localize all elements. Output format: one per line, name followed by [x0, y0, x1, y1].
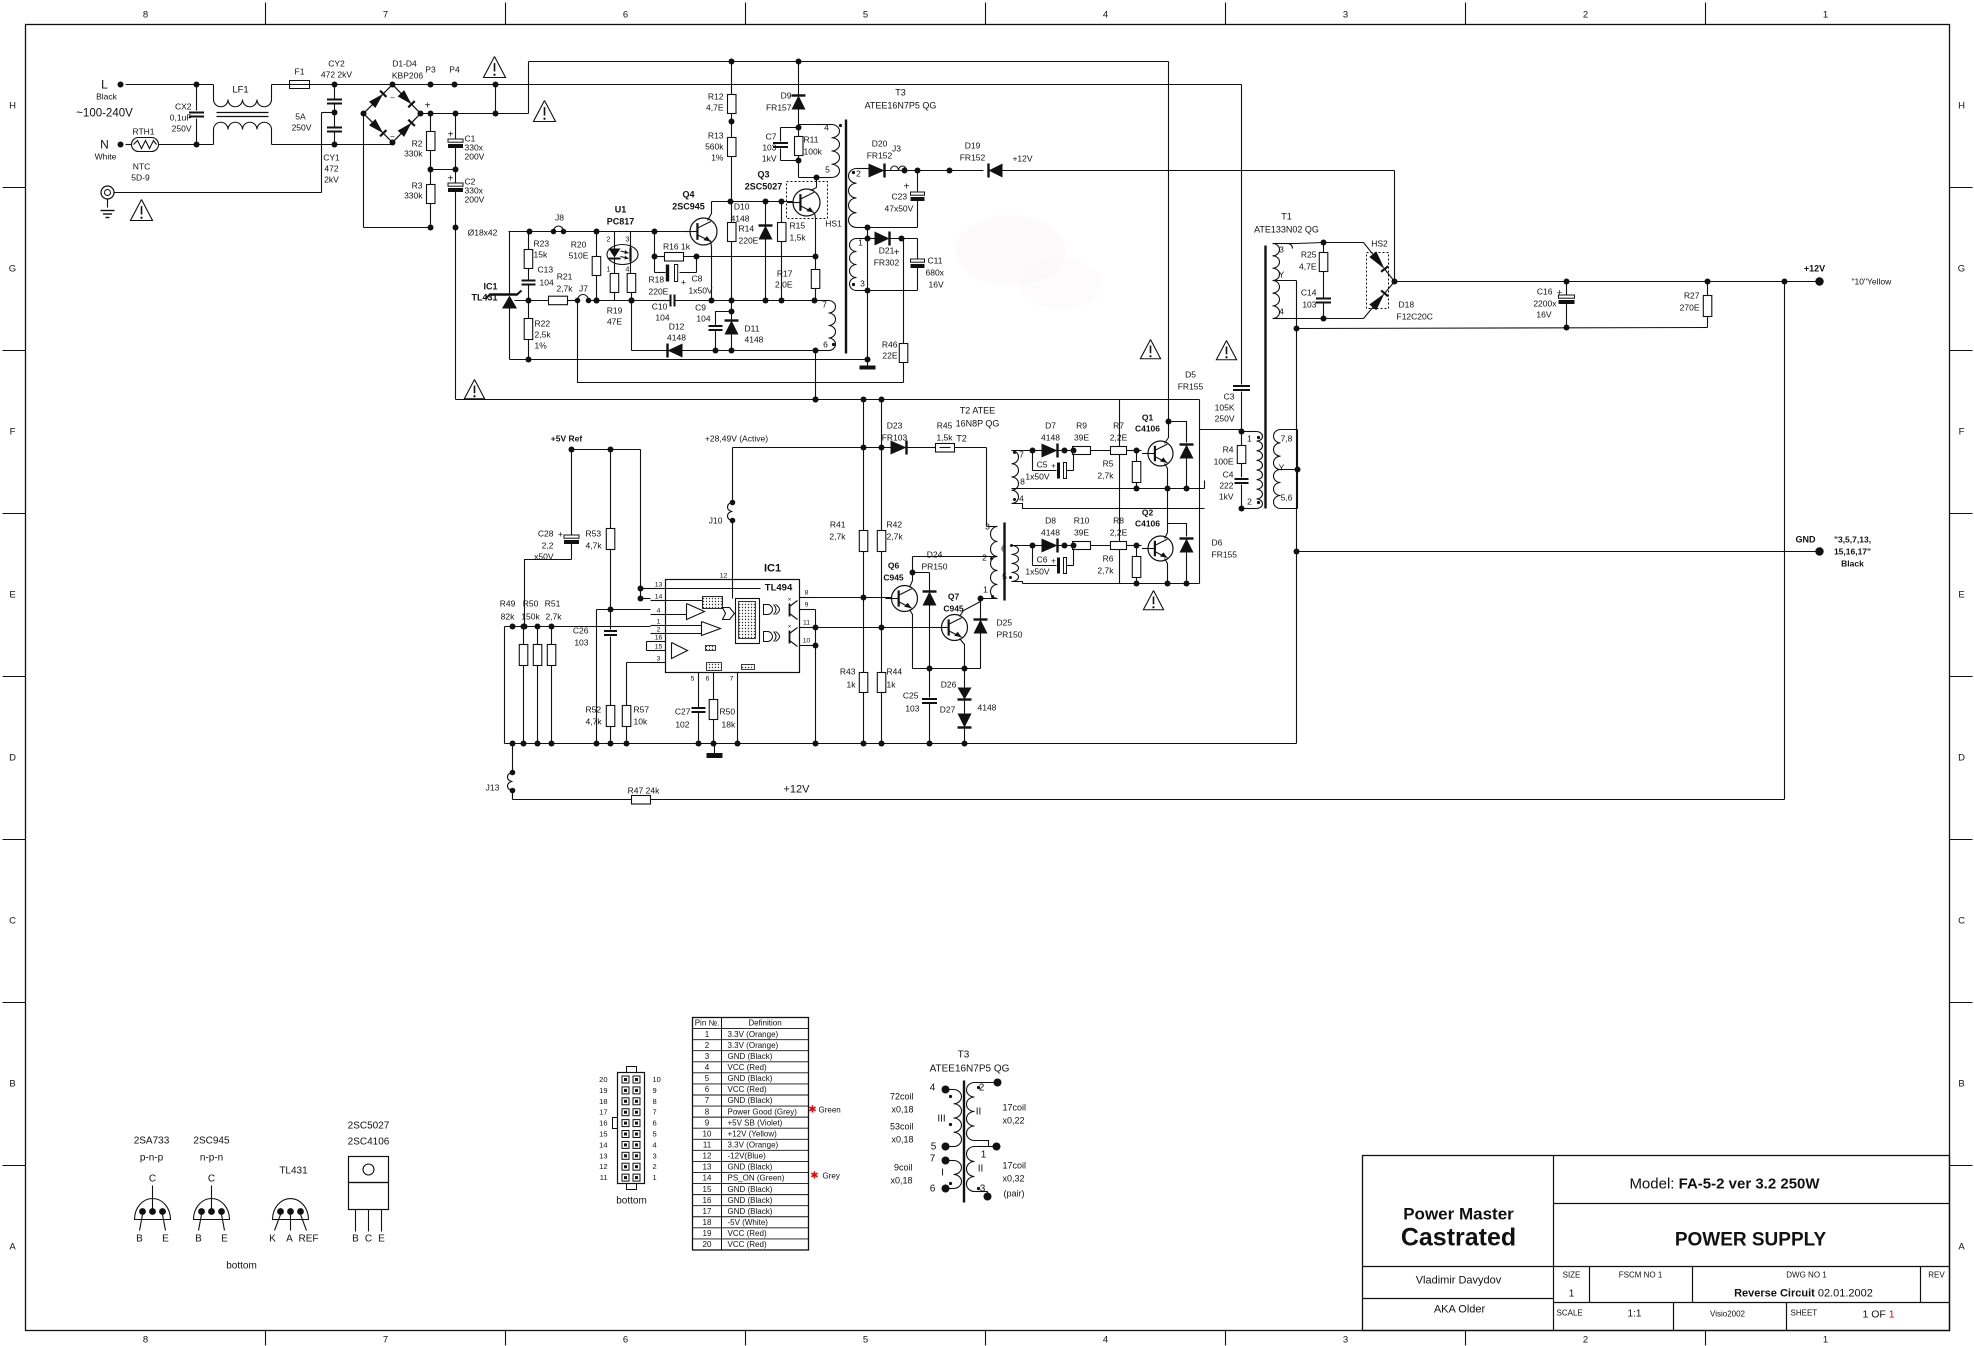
svg-text:x0,32: x0,32	[1003, 1174, 1025, 1184]
svg-text:5: 5	[1002, 572, 1007, 582]
svg-text:Q2: Q2	[1142, 508, 1154, 518]
wire TL494 pin11 to Q7 base	[816, 627, 942, 629]
svg-text:2SA733: 2SA733	[134, 1136, 170, 1147]
svg-text:472: 472	[324, 164, 338, 174]
svg-text:A: A	[1958, 1242, 1965, 1253]
svg-text:D24: D24	[927, 550, 943, 560]
svg-text:C5: C5	[1037, 460, 1048, 470]
svg-text:C4106: C4106	[1135, 519, 1160, 529]
svg-text:39E: 39E	[1074, 528, 1089, 538]
svg-text:R21: R21	[557, 272, 573, 282]
svg-text:8: 8	[705, 1107, 710, 1116]
svg-text:2,5k: 2,5k	[535, 330, 552, 340]
svg-text:GND: GND	[1796, 535, 1817, 545]
wire to bridge	[335, 84, 393, 86]
svg-text:TL494: TL494	[765, 583, 793, 594]
svg-text:A: A	[9, 1242, 16, 1253]
svg-text:Q6: Q6	[888, 561, 900, 571]
svg-text:13: 13	[599, 1151, 607, 1160]
svg-text:222: 222	[1219, 481, 1233, 491]
svg-text:1x50V: 1x50V	[1025, 567, 1049, 577]
svg-text:5: 5	[705, 1074, 710, 1083]
svg-text:R5: R5	[1103, 459, 1114, 469]
svg-text:T2: T2	[956, 434, 967, 444]
svg-text:+5V Ref: +5V Ref	[551, 434, 583, 444]
wire ground trunk down	[1296, 329, 1298, 744]
svg-text:8: 8	[1020, 477, 1025, 487]
svg-text:10: 10	[803, 638, 811, 645]
warning triangle right column	[1216, 341, 1236, 360]
svg-text:VCC (Red): VCC (Red)	[728, 1085, 767, 1094]
svg-text:C: C	[365, 1234, 372, 1245]
svg-text:2SC4106: 2SC4106	[348, 1137, 390, 1148]
svg-text:Grey: Grey	[823, 1172, 840, 1181]
svg-text:250V: 250V	[292, 123, 312, 133]
capacitor CY1 472 2kV	[332, 110, 338, 116]
svg-text:POWER SUPPLY: POWER SUPPLY	[1675, 1230, 1827, 1251]
svg-text:SCALE: SCALE	[1557, 1309, 1583, 1318]
svg-text:Q7: Q7	[948, 592, 960, 602]
warning triangle above ground rail	[464, 380, 484, 399]
svg-text:4148: 4148	[745, 335, 764, 345]
svg-text:14: 14	[599, 1140, 607, 1149]
svg-text:R45: R45	[937, 421, 953, 431]
svg-text:FR152: FR152	[960, 153, 986, 163]
wire R18 bottom to D12	[631, 301, 633, 351]
svg-text:Power Good (Grey): Power Good (Grey)	[728, 1107, 798, 1116]
svg-text:5: 5	[863, 10, 868, 21]
wire D24 branch	[913, 572, 930, 574]
warning triangle left of T1	[1140, 340, 1160, 359]
svg-text:R10: R10	[1074, 516, 1090, 526]
wire Q2 collector	[1165, 524, 1168, 539]
svg-text:3.3V (Orange): 3.3V (Orange)	[728, 1030, 779, 1039]
wire pin7 to ground rail	[737, 673, 739, 744]
svg-text:6: 6	[653, 1119, 657, 1128]
svg-text:7: 7	[730, 676, 734, 683]
svg-text:2: 2	[982, 553, 987, 563]
svg-text:7: 7	[930, 1154, 936, 1165]
svg-text:R4: R4	[1223, 445, 1234, 455]
svg-text:Q1: Q1	[1142, 413, 1154, 423]
svg-text:1x50V: 1x50V	[689, 286, 713, 296]
svg-text:100E: 100E	[1214, 457, 1234, 467]
svg-text:VCC (Red): VCC (Red)	[728, 1063, 767, 1072]
svg-text:R47 24k: R47 24k	[628, 786, 660, 796]
svg-text:bottom: bottom	[226, 1261, 257, 1272]
svg-text:D9: D9	[781, 91, 792, 101]
svg-text:T2 ATEE: T2 ATEE	[960, 406, 995, 416]
svg-text:17: 17	[703, 1207, 712, 1216]
svg-text:J8: J8	[555, 213, 564, 223]
resistor R49 82k	[523, 627, 525, 645]
svg-text:5: 5	[825, 165, 830, 175]
TL494 internal hatch bottom	[707, 663, 722, 671]
wire +12V down to D18 node	[1394, 171, 1396, 282]
standby ground symbol	[867, 360, 869, 368]
svg-text:Vladimir Davydov: Vladimir Davydov	[1416, 1275, 1502, 1287]
svg-text:ATE133N02 QG: ATE133N02 QG	[1254, 225, 1319, 235]
svg-text:REV: REV	[1928, 1271, 1945, 1280]
wire bridge minus rail	[363, 114, 365, 228]
svg-text:+12V: +12V	[1804, 264, 1825, 274]
svg-text:ATEE16N7P5 QG: ATEE16N7P5 QG	[930, 1064, 1010, 1075]
svg-text:2,7k: 2,7k	[1097, 566, 1114, 576]
svg-text:CX2: CX2	[175, 102, 192, 112]
TL494 internal feedback resistor	[703, 597, 723, 609]
wire N to filter	[159, 144, 197, 146]
svg-text:C: C	[1958, 916, 1965, 927]
svg-text:III: III	[937, 1114, 945, 1125]
wire Q1 collector	[1165, 422, 1169, 444]
svg-text:C945: C945	[883, 573, 904, 583]
wire R46 to feedback loop	[578, 301, 904, 383]
svg-text:103: 103	[905, 704, 919, 714]
svg-text:4: 4	[653, 1140, 657, 1149]
svg-text:12: 12	[599, 1162, 607, 1171]
svg-text:Visio2002: Visio2002	[1710, 1310, 1746, 1319]
svg-text:15: 15	[703, 1185, 712, 1194]
svg-text:D23: D23	[887, 421, 903, 431]
svg-text:5: 5	[691, 676, 695, 683]
svg-text:Power Master: Power Master	[1403, 1205, 1514, 1224]
svg-text:C14: C14	[1301, 288, 1317, 298]
svg-text:4: 4	[626, 267, 630, 274]
svg-text:C: C	[149, 1174, 156, 1185]
TL494 internal dead-time comparator	[687, 604, 705, 620]
TL494 internal or gate	[723, 608, 735, 620]
svg-text:22E: 22E	[882, 351, 897, 361]
svg-text:R6: R6	[1103, 554, 1114, 564]
wire TL494 pin4 line	[597, 609, 651, 611]
wire L to filter	[126, 84, 197, 86]
svg-text:B: B	[1958, 1079, 1964, 1090]
svg-text:C26: C26	[573, 626, 589, 636]
svg-text:10: 10	[653, 1075, 661, 1084]
svg-text:D19: D19	[965, 141, 981, 151]
wire sense line	[505, 626, 651, 628]
svg-text:C: C	[208, 1174, 215, 1185]
svg-text:4,7E: 4,7E	[1299, 262, 1317, 272]
faint watermark	[956, 216, 1101, 310]
svg-text:R15: R15	[790, 221, 806, 231]
svg-text:C4106: C4106	[1135, 424, 1160, 434]
svg-text:R22: R22	[535, 319, 551, 329]
svg-text:Q4: Q4	[682, 190, 694, 200]
svg-text:R53: R53	[586, 529, 602, 539]
svg-text:2SC945: 2SC945	[193, 1136, 230, 1147]
svg-text:R27: R27	[1684, 291, 1700, 301]
svg-text:+12V: +12V	[1012, 154, 1032, 164]
svg-text:13: 13	[703, 1163, 712, 1172]
svg-text:5: 5	[931, 1142, 937, 1153]
svg-text:4148: 4148	[978, 703, 997, 713]
svg-text:K: K	[269, 1234, 276, 1245]
svg-text:✱: ✱	[808, 1105, 816, 1116]
wire bottom +12V rail	[512, 791, 514, 800]
svg-text:R42: R42	[887, 520, 903, 530]
svg-text:2,7k: 2,7k	[829, 532, 846, 542]
svg-text:2SC5027: 2SC5027	[348, 1121, 390, 1132]
svg-text:KBP206: KBP206	[392, 71, 423, 81]
svg-text:14: 14	[703, 1174, 712, 1183]
svg-text:D10: D10	[734, 202, 750, 212]
svg-text:5: 5	[863, 1335, 868, 1346]
wire standby 12V line	[902, 168, 908, 174]
svg-text:47x50V: 47x50V	[885, 204, 914, 214]
wire R45 to T2 pin3	[986, 448, 988, 527]
svg-text:R18: R18	[649, 275, 665, 285]
svg-text:T1: T1	[1281, 212, 1292, 222]
svg-text:R13: R13	[708, 131, 724, 141]
driver stage box	[1199, 400, 1201, 584]
svg-text:FR152: FR152	[867, 151, 893, 161]
frame column ticks bottom	[265, 1331, 267, 1346]
svg-text:2: 2	[607, 237, 611, 244]
svg-text:R50: R50	[720, 707, 736, 717]
svg-text:Castrated: Castrated	[1401, 1224, 1516, 1252]
svg-text:B: B	[352, 1234, 359, 1245]
svg-text:510E: 510E	[569, 251, 589, 261]
wire AC line to C3 column	[496, 84, 1242, 86]
svg-text:C10: C10	[652, 302, 668, 312]
svg-text:D20: D20	[872, 139, 888, 149]
wire bridge bottom to N line	[392, 143, 394, 145]
svg-text:18k: 18k	[722, 720, 736, 730]
svg-text:5A: 5A	[295, 112, 306, 122]
svg-text:B: B	[195, 1234, 202, 1245]
svg-text:330k: 330k	[404, 191, 423, 201]
wire C3 node to box	[1200, 429, 1242, 431]
TL494 internal error amplifier 1	[702, 622, 721, 636]
wire C3 column from AC line	[1241, 85, 1243, 385]
svg-text:D26: D26	[941, 680, 957, 690]
svg-text:20: 20	[703, 1240, 712, 1249]
svg-text:F1: F1	[295, 67, 305, 77]
warning triangle on HV rail	[533, 101, 555, 122]
svg-text:HS1: HS1	[825, 219, 842, 229]
svg-text:B: B	[136, 1234, 143, 1245]
svg-text:6: 6	[623, 1335, 628, 1346]
wire T1 Y tap	[1273, 280, 1297, 282]
svg-text:1%: 1%	[535, 341, 548, 351]
svg-text:x0,22: x0,22	[1003, 1116, 1025, 1126]
svg-text:II: II	[978, 1164, 984, 1175]
svg-text:E: E	[221, 1234, 228, 1245]
svg-text:19: 19	[703, 1229, 712, 1238]
wire R16 branch from rail	[654, 232, 656, 257]
svg-text:-12V(Blue): -12V(Blue)	[728, 1152, 767, 1161]
svg-text:10: 10	[703, 1129, 712, 1138]
wire T1 pin3 to R25 node	[1287, 243, 1324, 244]
svg-text:20: 20	[599, 1075, 607, 1084]
warning triangle near P4	[483, 57, 505, 78]
svg-text:16V: 16V	[1536, 310, 1551, 320]
svg-text:R52: R52	[586, 705, 602, 715]
connector pin squares	[622, 1076, 629, 1083]
wire to T3 pin 5	[798, 161, 800, 178]
TL494 internal wires	[666, 588, 761, 590]
svg-text:TL431: TL431	[279, 1166, 308, 1177]
svg-text:N: N	[100, 138, 109, 152]
svg-text:D6: D6	[1212, 538, 1223, 548]
svg-text:CY2: CY2	[328, 59, 345, 69]
svg-text:Green: Green	[819, 1106, 841, 1115]
wire T1 pin4 to HS2	[1287, 318, 1324, 320]
svg-text:2,0E: 2,0E	[775, 280, 793, 290]
svg-text:Pin №.: Pin №.	[695, 1019, 720, 1028]
svg-text:4: 4	[705, 1063, 710, 1072]
svg-text:C: C	[9, 916, 16, 927]
svg-text:200V: 200V	[465, 152, 485, 162]
node GND output	[1815, 547, 1823, 555]
svg-text:11: 11	[803, 620, 810, 627]
frame row ticks left	[3, 187, 26, 189]
svg-text:9coil: 9coil	[894, 1163, 913, 1173]
svg-text:1:1: 1:1	[1628, 1309, 1642, 1320]
svg-text:1: 1	[981, 1150, 987, 1161]
svg-text:330k: 330k	[404, 149, 423, 159]
svg-text:+: +	[681, 278, 686, 288]
svg-text:150k: 150k	[521, 612, 540, 622]
resistor R51 2,7k	[551, 627, 553, 645]
svg-text:✱: ✱	[810, 1171, 818, 1182]
svg-text:4,7k: 4,7k	[586, 541, 603, 551]
svg-text:AKA Older: AKA Older	[1434, 1304, 1486, 1316]
svg-text:+12V: +12V	[784, 784, 811, 796]
svg-text:9: 9	[705, 1118, 710, 1127]
svg-text:1: 1	[1823, 1335, 1828, 1346]
svg-text:3: 3	[980, 1184, 986, 1195]
svg-text:8: 8	[653, 1097, 657, 1106]
svg-text:220E: 220E	[739, 236, 759, 246]
svg-text:F12C20C: F12C20C	[1397, 312, 1433, 322]
svg-text:Black: Black	[1841, 559, 1864, 569]
svg-text:17coil: 17coil	[1003, 1103, 1027, 1113]
svg-text:Black: Black	[96, 92, 118, 102]
svg-text:C945: C945	[943, 604, 964, 614]
TL494 internal error amplifier 2	[672, 643, 688, 659]
svg-text:11: 11	[600, 1173, 608, 1182]
diode D18 F12C20C lower	[1369, 293, 1384, 310]
svg-text:2: 2	[653, 1162, 657, 1171]
svg-text:1 OF 1: 1 OF 1	[1863, 1309, 1895, 1321]
svg-text:2,7k: 2,7k	[556, 284, 573, 294]
svg-text:C11: C11	[928, 256, 943, 266]
svg-text:12: 12	[703, 1152, 712, 1161]
wire Q6 emitter down	[910, 610, 913, 669]
wire TL431 lower rail	[510, 359, 868, 361]
diode D18 F12C20C upper	[1369, 251, 1384, 269]
svg-text:x0,18: x0,18	[891, 1135, 913, 1145]
svg-text:R7: R7	[1113, 421, 1124, 431]
svg-text:1: 1	[1247, 434, 1252, 444]
svg-text:Q3: Q3	[757, 170, 769, 180]
wire pin16 15 hook	[647, 641, 651, 643]
svg-text:REF: REF	[299, 1234, 319, 1245]
wire driver stage bottom rail	[1023, 583, 1200, 585]
svg-text:E: E	[9, 590, 15, 601]
svg-text:3: 3	[653, 1151, 657, 1160]
wire R41 R42 feed columns	[863, 400, 865, 448]
svg-text:FR155: FR155	[1178, 382, 1204, 392]
svg-text:R16 1k: R16 1k	[663, 242, 691, 252]
wire Q7 emitter down	[960, 639, 965, 669]
svg-text:16: 16	[599, 1119, 607, 1128]
svg-text:PR150: PR150	[997, 630, 1023, 640]
svg-text:P4: P4	[449, 65, 460, 75]
svg-text:2SC5027: 2SC5027	[745, 182, 783, 192]
wire CY midpoint to protective earth	[322, 112, 335, 114]
svg-text:n-p-n: n-p-n	[200, 1153, 223, 1164]
svg-text:R41: R41	[830, 520, 846, 530]
wire Q6 collector to T2 pin2	[910, 557, 913, 588]
svg-text:D18: D18	[1399, 300, 1415, 310]
svg-text:7,8: 7,8	[1281, 434, 1293, 444]
TL494 pin stubs left	[651, 588, 666, 590]
svg-text:6: 6	[623, 10, 628, 21]
svg-text:7: 7	[383, 1335, 388, 1346]
svg-text:D11: D11	[745, 324, 760, 334]
svg-text:White: White	[95, 152, 117, 162]
svg-text:103: 103	[1302, 300, 1316, 310]
wire top HV rail	[529, 61, 1169, 63]
svg-text:R8: R8	[1113, 516, 1124, 526]
svg-text:J7: J7	[579, 284, 588, 294]
title block dividers	[1553, 1156, 1555, 1331]
svg-text:H: H	[9, 101, 16, 112]
svg-text:+: +	[1051, 462, 1056, 471]
svg-text:1kV: 1kV	[1219, 492, 1234, 502]
svg-text:FSCM NO 1: FSCM NO 1	[1619, 1271, 1663, 1280]
svg-text:T3: T3	[895, 88, 906, 98]
svg-text:II: II	[976, 1107, 982, 1118]
svg-text:G: G	[9, 264, 16, 275]
svg-text:104: 104	[696, 314, 710, 324]
svg-text:F: F	[10, 427, 16, 438]
svg-text:4: 4	[657, 608, 661, 615]
svg-text:×: ×	[788, 625, 792, 631]
svg-text:82k: 82k	[501, 612, 515, 622]
svg-text:6: 6	[930, 1184, 936, 1195]
svg-text:270E: 270E	[1680, 303, 1700, 313]
svg-text:L: L	[101, 78, 108, 92]
wire pin3 to R57	[627, 662, 651, 664]
TL494 ground symbol	[714, 744, 716, 754]
wire Q3 emitter column	[815, 213, 816, 257]
wire Q4 collector	[708, 202, 712, 221]
svg-text:4: 4	[1103, 10, 1108, 21]
svg-text:D8: D8	[1045, 516, 1056, 526]
svg-text:15: 15	[599, 1130, 607, 1139]
svg-text:Model: FA-5-2 ver 3.2 250W: Model: FA-5-2 ver 3.2 250W	[1629, 1176, 1820, 1193]
svg-text:R23: R23	[534, 239, 550, 249]
svg-text:bottom: bottom	[616, 1196, 647, 1207]
svg-text:C8: C8	[692, 274, 703, 284]
svg-text:D21: D21	[879, 246, 895, 256]
svg-text:C16: C16	[1537, 287, 1553, 297]
frame column ticks top	[265, 3, 267, 25]
svg-text:E: E	[378, 1234, 385, 1245]
svg-text:C9: C9	[695, 303, 706, 313]
svg-text:250V: 250V	[172, 124, 192, 134]
svg-text:200V: 200V	[465, 195, 485, 205]
svg-text:4: 4	[1019, 494, 1024, 504]
svg-text:39E: 39E	[1074, 433, 1089, 443]
svg-text:18: 18	[599, 1097, 607, 1106]
svg-text:FR155: FR155	[1212, 550, 1238, 560]
wire pin9 pin10 ground column	[815, 610, 817, 744]
